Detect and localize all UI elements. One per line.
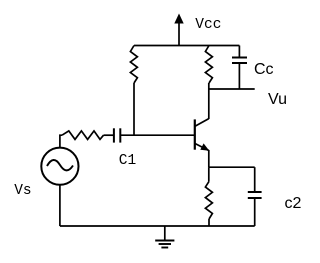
ground	[155, 226, 174, 248]
transistor Q1	[195, 119, 210, 151]
Vcc power arrow	[174, 14, 183, 46]
capacitor C2	[248, 167, 262, 226]
wire base	[120, 134, 195, 136]
wire output node Vu	[209, 88, 255, 90]
resistor RE (emitter)	[205, 181, 212, 219]
svg-text:Vcc: Vcc	[195, 17, 221, 33]
wire bottom rail	[60, 225, 255, 227]
svg-text:c2: c2	[285, 195, 302, 212]
wire RS to C1	[104, 134, 114, 136]
svg-text:C1: C1	[119, 153, 136, 169]
source Vs	[41, 148, 78, 185]
svg-text:Vu: Vu	[268, 91, 287, 108]
wire RE bottom	[208, 219, 210, 226]
svg-text:Vs: Vs	[14, 183, 31, 199]
resistor R1 (base bias)	[130, 46, 137, 84]
capacitor C1	[114, 128, 120, 142]
svg-text:Cc: Cc	[254, 61, 274, 78]
resistor RS (series, horizontal)	[62, 131, 104, 140]
capacitor Cc	[232, 46, 247, 90]
wire top rail	[134, 45, 239, 47]
wire source top	[60, 135, 62, 147]
wire emitter node to C2	[209, 166, 255, 168]
wire emitter down	[208, 150, 210, 167]
wire R1 bottom to base node	[133, 83, 135, 135]
resistor R2 (collector load)	[205, 46, 212, 84]
wire emitter node to RE	[208, 167, 210, 181]
wire source bottom	[59, 185, 61, 226]
wire R2 bottom to collector node	[208, 83, 210, 119]
